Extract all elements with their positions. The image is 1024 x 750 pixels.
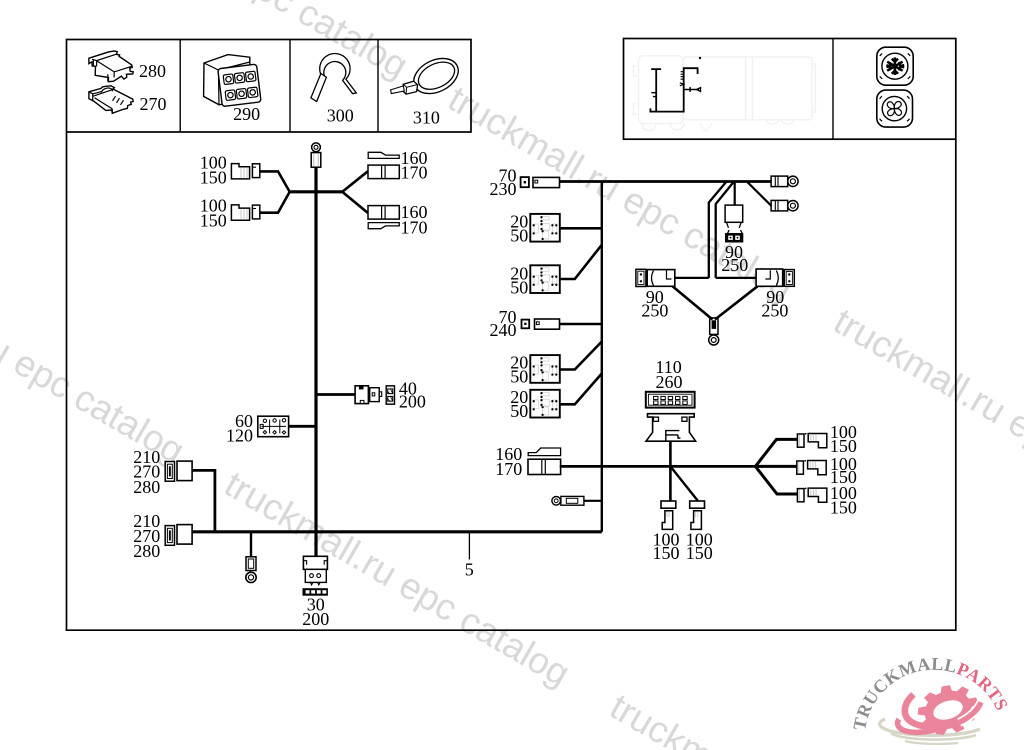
logo swoosh ring front [955,702,984,722]
svg-text:230: 230 [490,179,517,199]
svg-text:250: 250 [641,301,668,321]
header divider 1 [179,40,181,133]
svg-text:120: 120 [226,425,253,445]
svg-text:150: 150 [200,210,227,230]
wire fork branch middle [755,465,797,468]
connector 70/240 square [522,320,530,329]
housing icon 270 [89,86,133,114]
boot connector 100/150 right [690,501,705,529]
svg-text:280: 280 [139,61,166,81]
svg-text:280: 280 [133,477,160,497]
wire 160/170 horizontal [560,465,756,468]
relay 90/250 top [725,205,743,242]
svg-text:150: 150 [653,543,680,563]
cable tie icon 310 [391,51,464,100]
snowflake icon [877,47,913,85]
wire bottom trunk [192,530,602,533]
housing icon 280 [89,51,133,82]
svg-text:150: 150 [830,497,857,517]
display unit 110/260 [646,392,695,408]
ring terminal middle [552,496,584,505]
svg-text:280: 280 [133,541,160,561]
wire to block 60/120 [289,425,315,428]
connector 90/250 right [756,269,794,286]
wire relay block 1 [560,227,602,230]
fan icon [877,90,913,127]
bracket housing 110/260 [646,414,696,442]
logo arc text TRUCKMALL PARTS [865,670,1003,731]
main frame left edge [66,132,68,630]
logo gear [912,678,985,743]
svg-text:170: 170 [401,162,428,182]
connector 70/230 body [533,177,560,187]
logo swoosh ring back [900,685,953,735]
svg-text:50: 50 [510,401,528,421]
header strip box [67,40,472,133]
wire V link left [675,277,709,279]
wire branch upper-right [343,171,368,191]
svg-text:200: 200 [302,609,329,629]
connector stack 1 body [177,461,192,481]
svg-text:150: 150 [830,436,857,456]
connector 160 lower-right [368,206,399,220]
connector 100/150 upper-left [231,164,259,179]
connector 70/240 body [535,319,560,329]
svg-text:50: 50 [510,278,528,298]
connector stack 1 striped part [165,462,174,482]
header divider 2 [289,40,291,133]
connector 170 upper-right [368,165,399,179]
wire ground drop [250,532,252,557]
wire relay block 2 [560,245,602,279]
wire boot connector diagonal [670,466,698,501]
wire V link right [716,277,756,279]
wire branch lower-right [343,192,368,213]
wire mid ring terminal [584,500,602,502]
svg-text:250: 250 [761,301,788,321]
ring terminal top right no.1 [771,176,798,187]
apex connector with ring [709,318,719,345]
wire relay 90/250 drop [734,182,736,206]
svg-text:260: 260 [656,372,683,392]
truck outline faint [634,56,816,132]
svg-text:200: 200 [399,391,426,411]
connector stack 2 striped part [165,526,174,546]
connector block icon 290 [204,55,261,107]
connector 100/150 fork down [797,488,826,503]
wire relay block 3 [560,342,602,370]
svg-text:250: 250 [721,255,748,275]
svg-text:170: 170 [401,217,428,237]
wire branch lower-left [260,192,290,213]
svg-text:150: 150 [200,167,227,187]
connector 100/150 lower-left [231,205,259,220]
wire central vertical [601,182,603,532]
relay block 20/50 no.4 [530,390,560,418]
connector stack 2 body [177,525,192,545]
wire top cross horizontal [288,190,344,193]
wire relay block 4 [560,374,602,405]
wire V diagonal right [715,286,758,319]
connector 200 stripe [386,386,394,404]
harness route diagram [650,57,701,112]
svg-text:310: 310 [413,107,440,127]
ground ring terminal bottom [246,557,256,583]
header divider 3 [377,40,379,133]
boot connector 100/150 left [661,501,676,529]
wire 110/260 vertical drop [669,441,672,501]
wire 70/240 [560,323,602,326]
terminal 170 lower-right [368,223,399,229]
main frame bottom edge [66,629,956,631]
connector 70/230 square [521,177,529,187]
block 60/120 [258,416,289,437]
wire top horizontal bus [560,180,772,183]
svg-text:270: 270 [140,94,167,114]
wire double diagonal right [716,182,734,278]
svg-text:170: 170 [495,459,522,479]
clip icon 300 [311,54,356,102]
wire fork branch down [755,466,797,494]
wire fork branch up [755,439,797,466]
svg-text:5: 5 [465,559,474,579]
svg-text:50: 50 [510,367,528,387]
relay block 20/50 no.1 [530,214,560,242]
svg-text:290: 290 [233,104,260,124]
ring terminal top right no.2 [771,200,798,211]
connector 30/200 striped bar [303,589,327,596]
top right box [624,39,956,140]
wire double diagonal left [709,182,727,278]
wire from connector stack 1 [192,470,215,531]
relay block 20/50 no.2 [530,265,560,293]
logo swoosh ring lower [896,709,943,738]
wire branch upper-left [260,171,290,191]
relay block 20/50 no.3 [530,355,560,383]
svg-text:150: 150 [686,543,713,563]
connector 100/150 fork middle [797,460,826,475]
connector 90/250 left [636,269,675,286]
wire diagonal to ring 2 [748,182,772,206]
svg-text:300: 300 [327,106,354,126]
terminal 160 upper-right [368,152,399,158]
connector 40 body [355,386,382,404]
ring terminal top [311,143,321,167]
leader line item 5 [468,532,470,560]
top right divider [832,39,834,140]
logo shadow swirls [880,719,980,744]
wire V diagonal left [673,286,713,319]
wire to connector 40/200 [317,393,355,396]
svg-text:240: 240 [490,320,517,340]
connector 170 middle [528,459,561,474]
svg-text:50: 50 [510,226,528,246]
main frame right edge [955,139,957,631]
connector 30/200 housing [303,556,327,585]
connector 100/150 fork up [797,433,826,448]
terminal 160 middle [528,448,560,456]
wire main left vertical [314,167,317,557]
